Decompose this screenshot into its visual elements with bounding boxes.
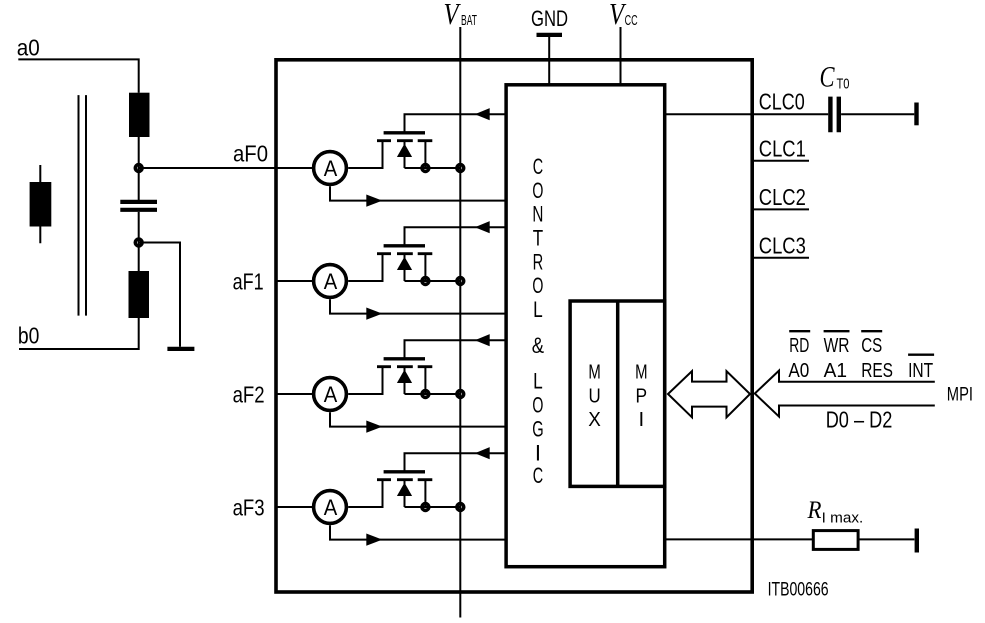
capacitor line cap <box>120 202 157 210</box>
svg-text:CLC3: CLC3 <box>759 232 806 258</box>
outer block box <box>276 60 752 592</box>
channel aF3 driver <box>276 447 507 546</box>
label INT (overline) <box>908 354 934 356</box>
svg-text:aF1: aF1 <box>233 269 264 295</box>
wire resistor to node aF0 <box>139 137 276 168</box>
node aF0 junction <box>135 165 142 172</box>
wire GND to block <box>548 37 550 85</box>
svg-text:b0: b0 <box>18 323 40 349</box>
ground rail GND symbol <box>537 33 563 37</box>
svg-text:C: C <box>533 154 543 179</box>
divider MUX|MPI <box>616 301 620 486</box>
svg-text:A1: A1 <box>824 360 847 382</box>
svg-text:CS: CS <box>861 335 882 357</box>
bus MPI arrow <box>755 371 935 417</box>
svg-text:O: O <box>532 393 543 418</box>
ground <box>167 347 194 351</box>
svg-text:M: M <box>588 361 600 384</box>
svg-text:MPI: MPI <box>947 384 973 405</box>
wire CLC2 stub <box>752 208 809 210</box>
svg-text:I: I <box>535 440 541 465</box>
svg-text:A0: A0 <box>788 360 809 382</box>
capacitor CT0 <box>830 97 838 133</box>
svg-text:O: O <box>532 178 543 203</box>
supply rail VBAT vertical <box>459 27 461 618</box>
svg-text:WR: WR <box>824 335 850 357</box>
svg-text:U: U <box>589 384 601 407</box>
wire node to ground <box>139 243 180 347</box>
svg-text:ITB00666: ITB00666 <box>768 580 829 601</box>
bus double arrow MUX-MPI <box>668 371 750 417</box>
wire resistor to b0 <box>19 318 139 349</box>
svg-text:aF3: aF3 <box>233 495 265 521</box>
svg-text:INT: INT <box>908 360 933 382</box>
svg-text:RES: RES <box>861 360 893 382</box>
svg-text:a0: a0 <box>17 35 40 61</box>
subscriber line pair <box>79 95 87 316</box>
block MUX/MPI box <box>570 301 665 486</box>
svg-text:R: R <box>807 497 822 524</box>
channel aF2 driver <box>276 334 507 433</box>
wire R I max <box>665 538 814 540</box>
resistor R I max <box>813 531 858 550</box>
svg-text:P: P <box>636 384 648 407</box>
telephone set load (filled) <box>39 165 41 243</box>
wire resistor to terminal <box>858 538 914 540</box>
svg-text:CC: CC <box>625 12 638 29</box>
wire CLC0 <box>665 113 829 115</box>
label MUX <box>588 361 601 431</box>
svg-text:aF0: aF0 <box>233 141 268 167</box>
wire a0 <box>18 59 138 92</box>
svg-text:X: X <box>588 408 601 431</box>
resistor a-leg (filled) <box>129 93 150 137</box>
svg-text:T: T <box>533 226 543 251</box>
svg-text:CLC0: CLC0 <box>759 89 805 115</box>
svg-text:CLC1: CLC1 <box>759 135 806 161</box>
wire node to capacitor <box>138 168 140 200</box>
wire CT0 to terminal <box>841 113 914 115</box>
svg-text:C: C <box>820 61 836 94</box>
svg-text:D0 – D2: D0 – D2 <box>826 406 893 432</box>
op block: CONTROL & LOGIC box U1 <box>506 85 665 567</box>
label CONTROL & LOGIC <box>532 154 545 488</box>
svg-text:I max.: I max. <box>822 510 864 527</box>
svg-text:M: M <box>635 361 647 384</box>
resistor b-leg (filled) <box>129 271 150 318</box>
wire capacitor to node <box>138 212 140 243</box>
label WR (overline) <box>824 330 850 332</box>
label MPI <box>635 361 647 431</box>
svg-text:L: L <box>533 369 543 394</box>
wire CLC3 stub <box>752 257 809 259</box>
wire CLC1 stub <box>752 160 809 162</box>
wire node to resistor b-leg <box>138 243 140 272</box>
svg-text:O: O <box>532 273 543 298</box>
label RD (overline) <box>789 330 810 332</box>
svg-text:L: L <box>533 297 543 322</box>
svg-text:T0: T0 <box>837 76 850 93</box>
terminal R I max <box>915 529 919 553</box>
svg-text:R: R <box>533 249 544 274</box>
label CS (overline) <box>861 330 882 332</box>
channel aF1 driver <box>276 221 507 320</box>
wire VCC to block <box>620 27 622 85</box>
svg-text:C: C <box>533 463 543 488</box>
svg-text:aF2: aF2 <box>233 382 265 408</box>
svg-text:&: & <box>532 333 545 358</box>
svg-text:CLC2: CLC2 <box>759 184 806 210</box>
node b-side junction <box>135 239 142 246</box>
svg-text:I: I <box>638 408 644 431</box>
svg-text:V: V <box>444 0 461 31</box>
svg-text:G: G <box>532 417 543 442</box>
channel aF0 driver <box>276 108 507 207</box>
svg-text:RD: RD <box>789 335 809 357</box>
svg-text:N: N <box>532 202 543 227</box>
svg-text:GND: GND <box>531 6 568 31</box>
svg-text:BAT: BAT <box>461 12 477 29</box>
terminal CLC0 <box>914 103 918 126</box>
